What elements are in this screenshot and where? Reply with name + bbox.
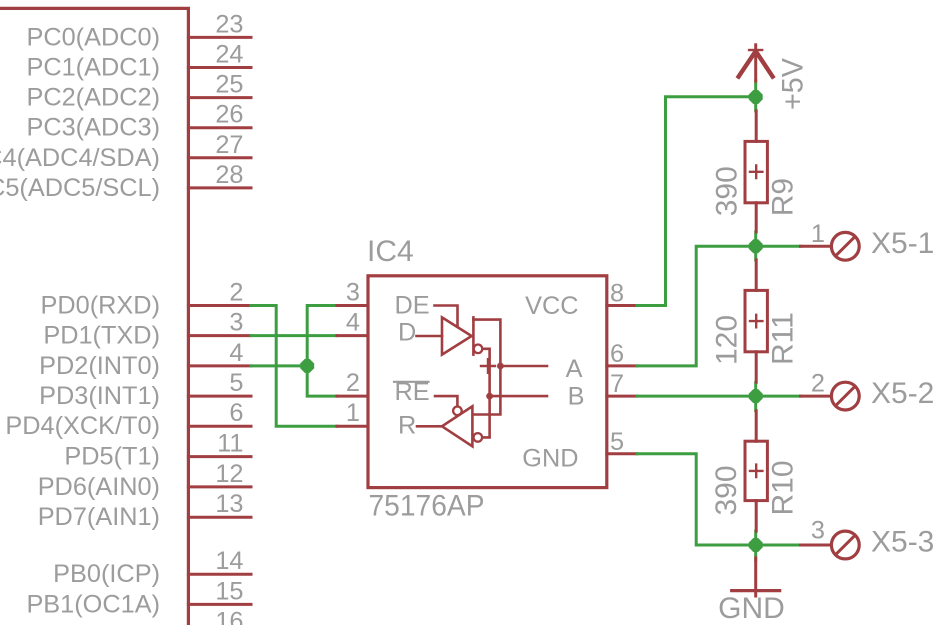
IC4 receiver triangle <box>442 406 472 446</box>
svg-text:5: 5 <box>610 428 624 456</box>
svg-text:14: 14 <box>215 547 243 575</box>
wire net GND: IC4 pin 5 to X5-3 node <box>637 454 801 545</box>
ground symbol GND <box>732 558 780 596</box>
IC1 pin 24 PC1(ADC1) <box>26 41 251 82</box>
junction node X5-2 <box>749 389 763 403</box>
IC4 pin 6 A stub <box>607 340 637 368</box>
svg-text:PD3(INT1): PD3(INT1) <box>39 382 160 410</box>
svg-text:12: 12 <box>215 460 243 488</box>
svg-text:PD7(AIN1): PD7(AIN1) <box>38 503 160 531</box>
svg-text:28: 28 <box>215 161 243 189</box>
svg-text:R10: R10 <box>766 460 799 515</box>
IC1 pin 13 PD7(AIN1) <box>38 490 251 531</box>
IC4 pin 8 VCC stub <box>607 280 637 308</box>
svg-text:X5-3: X5-3 <box>871 526 934 559</box>
IC4 pin 5 GND stub <box>607 428 637 456</box>
IC4 pin 1 R stub <box>337 399 368 427</box>
svg-text:D: D <box>398 319 416 347</box>
IC4 plus polarity mark <box>481 359 495 373</box>
svg-text:8: 8 <box>610 280 624 308</box>
svg-text:PC1(ADC1): PC1(ADC1) <box>26 54 160 82</box>
svg-text:GND: GND <box>718 592 785 625</box>
svg-text:PC3(ADC3): PC3(ADC3) <box>26 114 160 142</box>
svg-text:R9: R9 <box>766 178 799 216</box>
wire resistor chain segment at X5-3 <box>754 531 757 560</box>
wire net VCC: IC4 pin 8 to +5V rail <box>637 81 756 306</box>
junction node X5-3 <box>749 538 763 552</box>
junction node DE/RE tie <box>300 359 314 373</box>
IC1 pin 4 PD2(INT0) <box>39 339 251 380</box>
svg-text:A: A <box>566 355 583 383</box>
wire net TXD: PD1 to IC4 D <box>251 334 337 337</box>
IC1 pin 15 PB1(OC1A) <box>26 577 251 618</box>
IC4 pin label RE with overline <box>394 378 430 406</box>
svg-text:3: 3 <box>346 279 360 307</box>
svg-text:25: 25 <box>215 71 243 99</box>
svg-text:6: 6 <box>610 340 624 368</box>
svg-text:13: 13 <box>215 490 243 518</box>
svg-text:+5V: +5V <box>777 58 810 110</box>
IC4 driver output rail to A <box>473 320 500 415</box>
svg-text:15: 15 <box>215 577 243 605</box>
svg-text:PD0(RXD): PD0(RXD) <box>41 292 160 320</box>
IC4 pin 3 DE stub <box>337 279 368 307</box>
wire net B: IC4 pin 7 to X5-2 node <box>637 395 801 398</box>
svg-text:PB1(OC1A): PB1(OC1A) <box>26 590 160 618</box>
svg-text:5: 5 <box>229 369 243 397</box>
IC1 pin 6 PD4(XCK/T0) <box>5 399 251 440</box>
IC4 driver inverting bubble <box>474 345 483 354</box>
svg-text:2: 2 <box>346 369 360 397</box>
IC1 pin 26 PC3(ADC3) <box>26 101 251 142</box>
svg-text:7: 7 <box>610 370 624 398</box>
svg-text:VCC: VCC <box>525 292 578 320</box>
svg-text:PC2(ADC2): PC2(ADC2) <box>26 84 160 112</box>
IC4 RE link <box>435 396 457 405</box>
svg-text:B: B <box>568 383 585 411</box>
junction node X5-1 <box>749 239 763 253</box>
svg-text:PC4(ADC4/SDA): PC4(ADC4/SDA) <box>0 144 160 172</box>
wire resistor chain segment at X5-1 <box>754 232 757 260</box>
svg-text:1: 1 <box>346 399 360 427</box>
wire net INT0: PD2 to IC4 DE/RE <box>251 306 337 397</box>
IC4 pin 7 B stub <box>607 370 637 398</box>
svg-text:16: 16 <box>215 608 243 625</box>
IC4 receiver enable bubble <box>453 407 462 416</box>
wire resistor chain segment at X5-2 <box>754 382 757 410</box>
IC1 microcontroller box outline (partial, clipped left) <box>0 8 188 625</box>
IC1 pin 2 PD0(RXD) <box>41 279 251 320</box>
IC1 pin 11 PD5(T1) <box>64 430 251 471</box>
wire net A: IC4 pin 6 to X5-1 node <box>637 246 801 366</box>
svg-text:120: 120 <box>710 315 743 365</box>
svg-text:DE: DE <box>395 292 430 320</box>
svg-text:27: 27 <box>215 131 243 159</box>
IC4 75176AP box <box>368 276 607 488</box>
IC1 pin 14 PB0(ICP) <box>53 547 251 588</box>
svg-text:PB0(ICP): PB0(ICP) <box>53 560 160 588</box>
svg-text:IC4: IC4 <box>367 235 414 268</box>
svg-text:24: 24 <box>215 41 243 69</box>
IC1 pin 25 PC2(ADC2) <box>26 71 251 112</box>
svg-text:PD4(XCK/T0): PD4(XCK/T0) <box>5 412 160 440</box>
svg-text:23: 23 <box>215 10 243 38</box>
svg-text:GND: GND <box>522 445 578 473</box>
IC4 A line <box>500 365 547 368</box>
svg-text:PC5(ADC5/SCL): PC5(ADC5/SCL) <box>0 174 160 202</box>
resistor R9 <box>745 111 767 232</box>
IC4 pin 4 D stub <box>337 309 368 337</box>
connector X5-2 <box>801 370 935 411</box>
IC4 receiver inverting input bubble <box>474 433 483 442</box>
svg-text:PC0(ADC0): PC0(ADC0) <box>26 23 160 51</box>
connector X5-1 <box>801 220 935 260</box>
svg-text:2: 2 <box>229 279 243 307</box>
IC1 pin 27 PC4(ADC4/SDA) <box>0 131 251 172</box>
IC1 pin 28 PC5(ADC5/SCL) <box>0 161 251 202</box>
IC4 D input link <box>417 335 443 338</box>
+5V supply symbol <box>739 45 773 81</box>
svg-text:R11: R11 <box>766 312 799 365</box>
svg-text:1: 1 <box>811 220 825 248</box>
svg-text:4: 4 <box>346 309 360 337</box>
svg-text:390: 390 <box>710 465 743 515</box>
IC1 pin 5 PD3(INT1) <box>39 369 251 410</box>
svg-text:3: 3 <box>229 309 243 337</box>
IC1 pin 23 PC0(ADC0) <box>26 10 251 51</box>
svg-text:4: 4 <box>229 339 243 367</box>
svg-text:PD6(AIN0): PD6(AIN0) <box>38 473 160 501</box>
svg-text:11: 11 <box>217 430 243 458</box>
IC4 node B tap dot <box>486 393 493 400</box>
IC4 driver output bar <box>472 317 475 354</box>
IC4 node A tap dot <box>497 363 504 370</box>
connector X5-3 <box>801 517 935 559</box>
svg-text:PD5(T1): PD5(T1) <box>64 443 160 471</box>
svg-text:26: 26 <box>215 101 243 129</box>
svg-text:PD2(INT0): PD2(INT0) <box>39 352 160 380</box>
svg-text:2: 2 <box>811 370 825 398</box>
IC4 DE enable link <box>435 306 458 326</box>
IC1 pin 3 PD1(TXD) <box>43 309 251 350</box>
IC4 inverted output link to B <box>483 349 490 438</box>
IC1 pin 12 PD6(AIN0) <box>38 460 251 501</box>
svg-text:PD1(TXD): PD1(TXD) <box>43 322 160 350</box>
resistor R10 <box>745 411 767 531</box>
IC4 B line <box>490 395 547 398</box>
svg-text:R: R <box>398 412 416 440</box>
svg-text:75176AP: 75176AP <box>369 490 485 523</box>
IC4 driver triangle <box>442 317 472 354</box>
IC4 R output link <box>417 425 442 428</box>
svg-text:X5-2: X5-2 <box>871 377 934 410</box>
svg-text:3: 3 <box>811 517 825 545</box>
svg-text:X5-1: X5-1 <box>871 227 934 260</box>
wire net RXD: PD0 to IC4 R <box>251 306 337 427</box>
svg-text:390: 390 <box>710 166 743 216</box>
resistor R11 <box>745 260 767 382</box>
svg-text:6: 6 <box>229 399 243 427</box>
junction node +5V <box>749 90 763 104</box>
IC4 pin 2 RE stub <box>337 369 368 397</box>
